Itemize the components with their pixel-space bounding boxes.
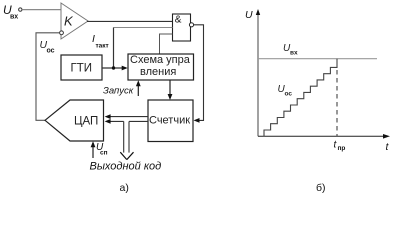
wire counter to DAC bus line 2 — [108, 120, 124, 122]
svg-text:Запуск: Запуск — [103, 86, 134, 97]
wire output code bus vertical — [123, 121, 125, 152]
svg-text:вх: вх — [290, 50, 298, 57]
svg-text:такт: такт — [96, 43, 109, 50]
terminal Uvx — [19, 8, 22, 11]
svg-text:&: & — [175, 14, 182, 25]
box counter (Счетчик) — [148, 100, 193, 142]
svg-text:вх: вх — [10, 14, 18, 21]
node Uvx input label — [3, 3, 18, 21]
box control circuit (Схема управления) U3 — [128, 54, 194, 80]
svg-text:ос: ос — [285, 91, 293, 98]
svg-text:K: K — [64, 14, 74, 29]
junction Itakt — [112, 66, 115, 69]
wire counter to DAC bus line 1 — [108, 116, 149, 118]
svg-text:Выходной код: Выходной код — [90, 160, 162, 172]
label Uoc on graph — [278, 84, 293, 98]
wire control to counter — [169, 80, 171, 98]
gate output inversion circle — [189, 23, 193, 27]
svg-text:ЦАП: ЦАП — [74, 116, 98, 128]
graph axis U (vertical) — [257, 13, 259, 136]
svg-text:Схема упра: Схема упра — [130, 54, 191, 66]
node Uoc label — [40, 39, 55, 55]
inverting input circle — [60, 31, 64, 35]
svg-text:ос: ос — [47, 48, 55, 55]
svg-text:ГТИ: ГТИ — [71, 63, 93, 75]
box GTI (clock generator) — [61, 55, 102, 80]
wire Zapusk arrow — [137, 82, 139, 96]
svg-text:а): а) — [120, 182, 129, 193]
svg-text:Счетчик: Счетчик — [149, 114, 190, 126]
wire comparator output — [87, 20, 173, 22]
arrow output code — [120, 152, 133, 159]
wire Uvx to comparator — [22, 9, 61, 11]
wire GTI output — [102, 67, 126, 69]
wire Itakt vertical — [113, 28, 115, 69]
DAC (ЦАП) U4 — [45, 100, 104, 141]
svg-text:б): б) — [316, 182, 326, 193]
wire gate output to counter — [194, 25, 204, 121]
wire Usp arrow — [92, 143, 94, 158]
label Itakt — [92, 33, 109, 50]
gate AND (&) U2 — [173, 14, 191, 41]
label Uvx on graph — [283, 43, 298, 57]
wire control to gate — [160, 34, 173, 54]
svg-text:сп: сп — [100, 150, 108, 157]
wire Itakt to gate — [114, 27, 173, 29]
label t_pr — [334, 140, 346, 152]
staircase Uoc waveform — [264, 59, 337, 137]
line Uvx level — [258, 58, 377, 60]
dashed line t_pr — [336, 70, 338, 136]
svg-text:вления: вления — [140, 66, 176, 78]
wire feedback Uoc — [36, 33, 60, 121]
svg-text:U: U — [245, 9, 253, 21]
graph axis t (horizontal) — [258, 135, 386, 137]
op-amp comparator K — [61, 3, 88, 39]
label Usp — [96, 142, 108, 157]
svg-text:пр: пр — [338, 145, 346, 152]
